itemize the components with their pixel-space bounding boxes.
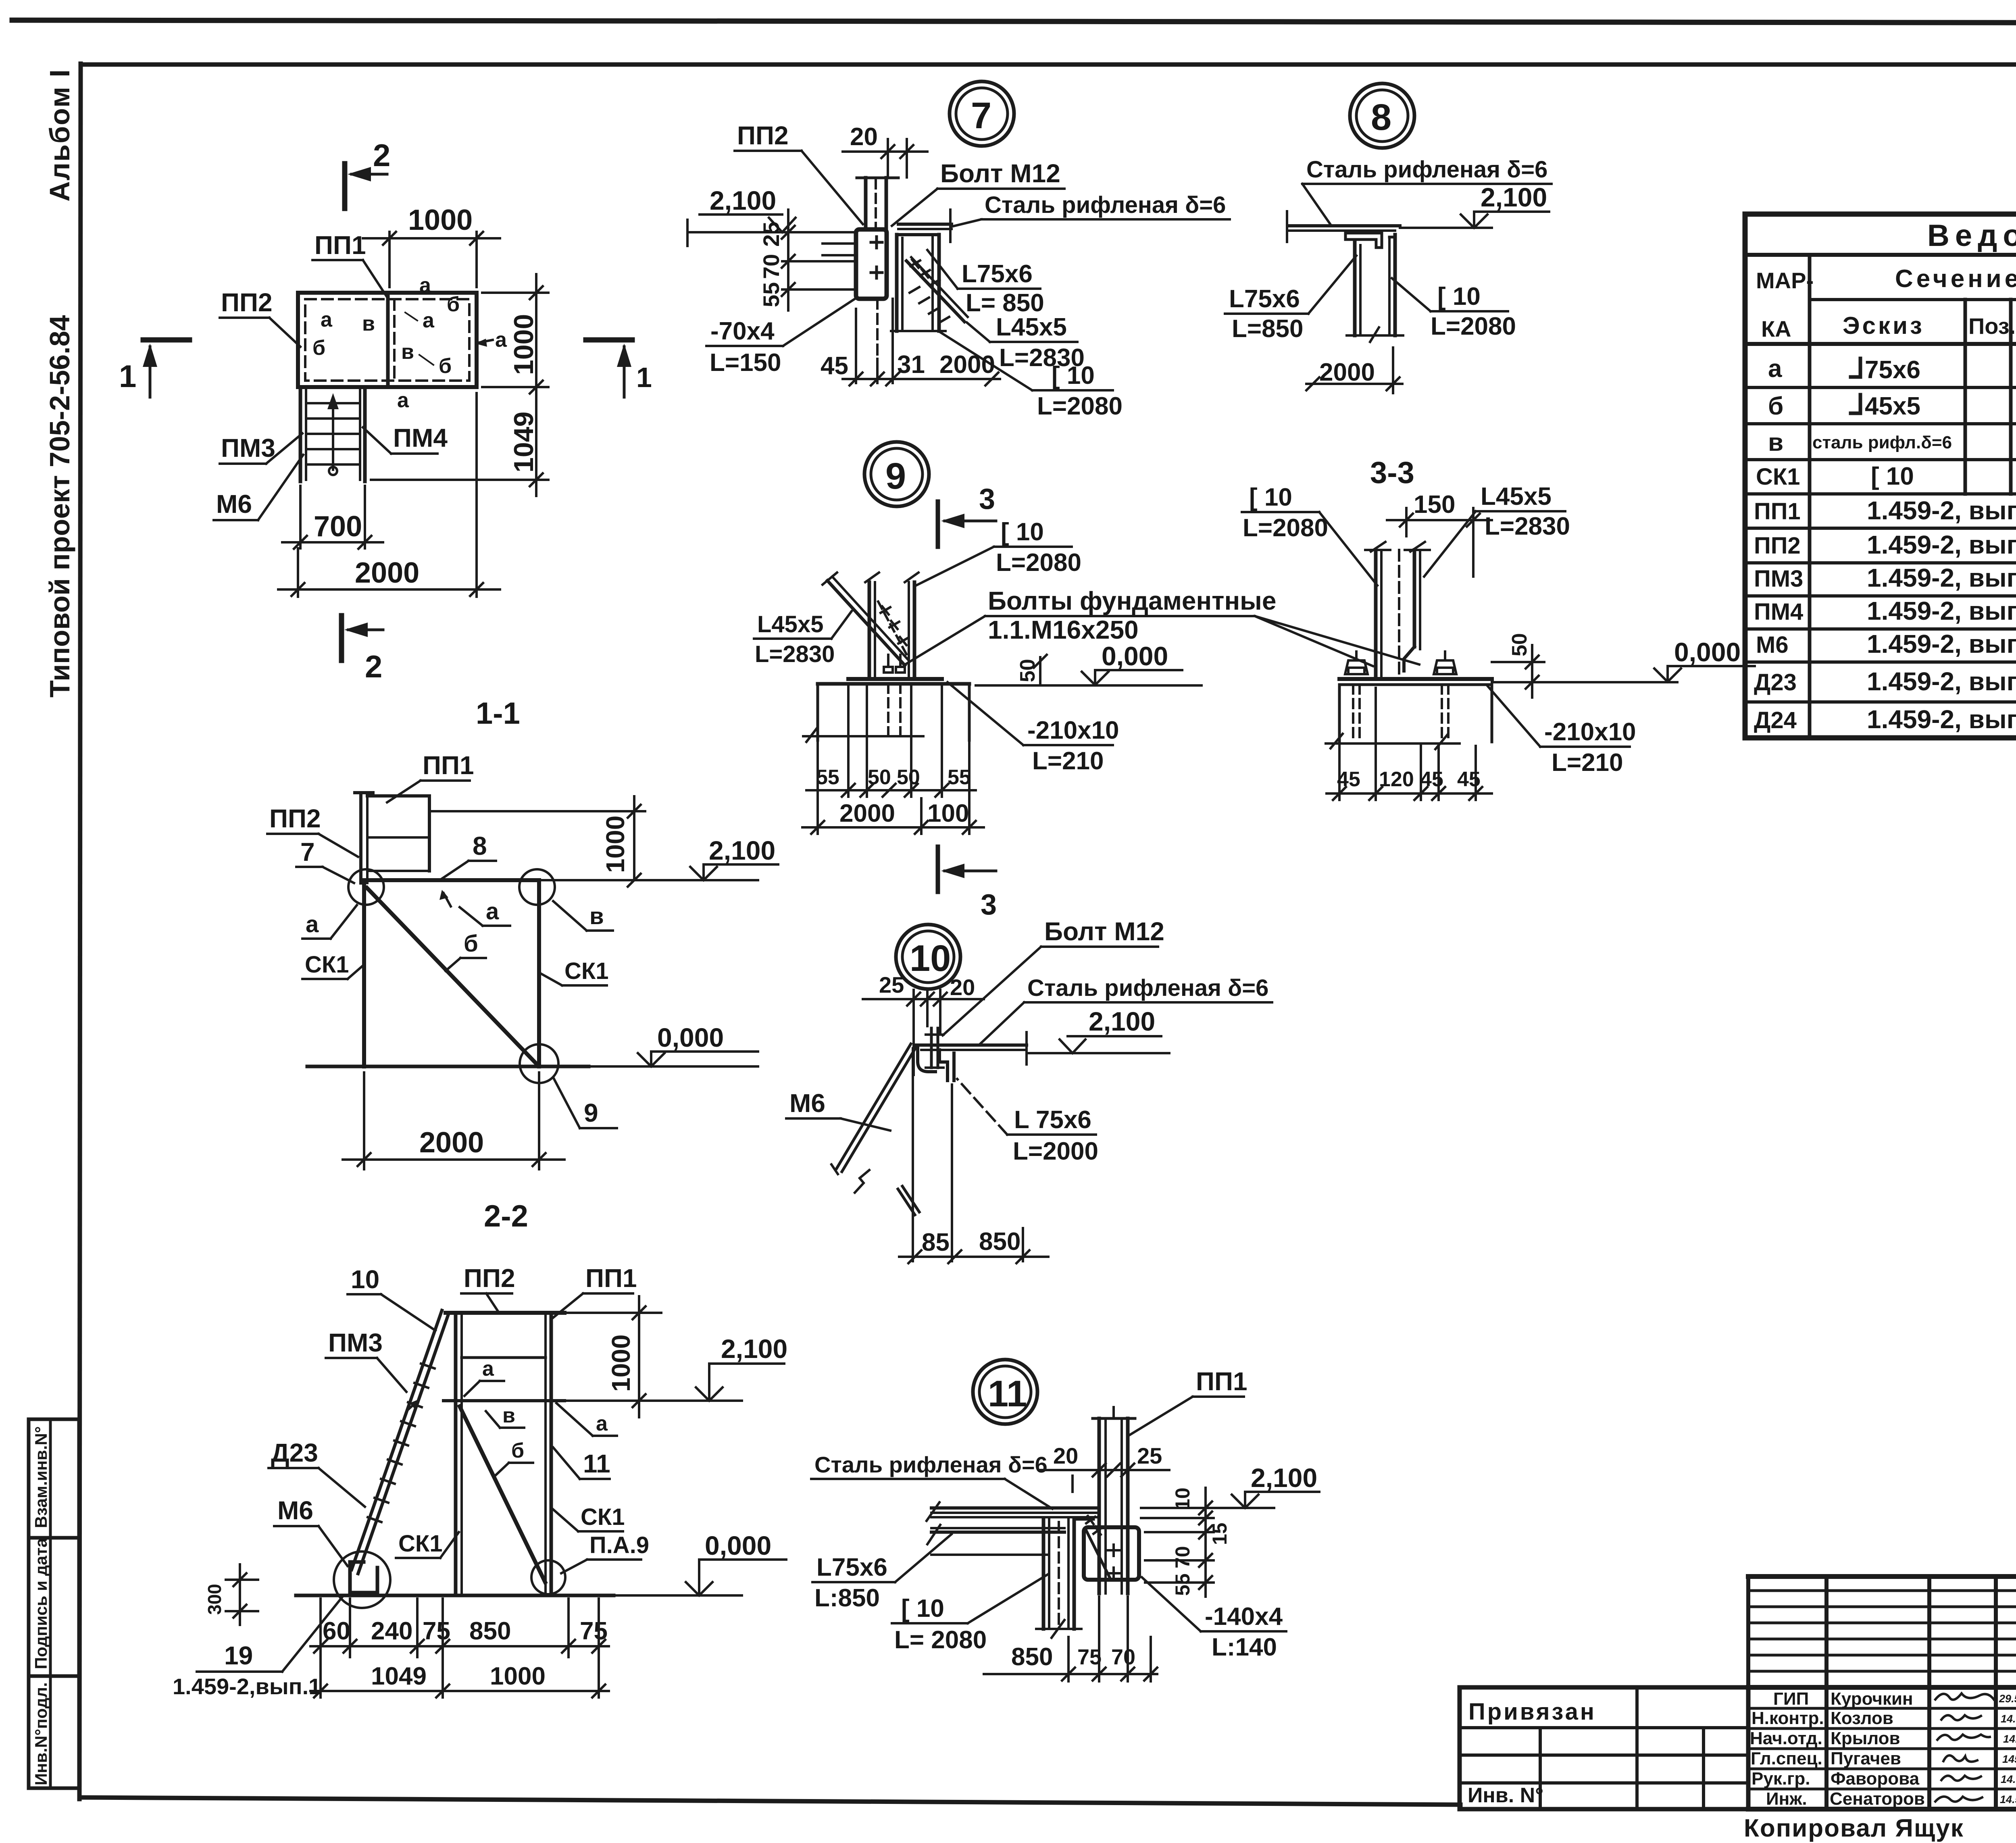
detail 11 post PP1 <box>1093 1417 1135 1420</box>
signature dates <box>1999 1693 2016 1806</box>
svg-text:Сечение: Сечение <box>1895 265 2016 293</box>
svg-text:L= 850: L= 850 <box>966 289 1044 317</box>
detail 9 bottom dims 2000 100 <box>816 742 819 834</box>
section 3-3 anchor bolt right <box>1437 668 1453 674</box>
svg-text:2000: 2000 <box>419 1127 484 1159</box>
svg-text:70: 70 <box>758 254 784 279</box>
detail 8 top angle piece <box>1345 233 1382 248</box>
svg-text:55: 55 <box>1171 1573 1194 1596</box>
svg-text:1049: 1049 <box>508 412 539 473</box>
detail 9 anchor bolt heads <box>884 667 893 673</box>
detail 11 callout circle <box>973 1360 1037 1424</box>
section 2-2 small arrow g <box>407 1402 416 1410</box>
section 1-1 right post <box>537 880 541 1066</box>
svg-text:а: а <box>419 274 431 297</box>
section mark 2 bottom <box>339 616 344 660</box>
section 1-1 node circles <box>348 869 384 905</box>
svg-text:55: 55 <box>948 766 971 789</box>
plan small leader arrows <box>478 340 493 343</box>
svg-text:45x5: 45x5 <box>1865 392 1920 420</box>
svg-text:70: 70 <box>1111 1645 1135 1669</box>
section mark 1 right <box>586 337 632 343</box>
svg-text:L=210: L=210 <box>1552 749 1623 777</box>
detail 9 callout circle <box>864 442 929 506</box>
detail 9 dim 50 <box>1039 657 1041 685</box>
svg-text:10: 10 <box>1171 1487 1194 1510</box>
detail 8 floor steel <box>1289 224 1400 227</box>
plan view inner dashed rect <box>305 299 469 381</box>
svg-text:2,100: 2,100 <box>709 835 775 865</box>
svg-text:2-2: 2-2 <box>484 1199 528 1233</box>
section 3-3 base plate <box>1339 677 1492 681</box>
svg-text:L=2830: L=2830 <box>1485 512 1570 540</box>
svg-text:0,000: 0,000 <box>705 1531 771 1560</box>
svg-text:ПМ4: ПМ4 <box>393 423 448 452</box>
detail 9 base plate <box>848 677 942 681</box>
svg-text:11: 11 <box>988 1373 1027 1414</box>
svg-text:б: б <box>447 293 460 316</box>
plan dim 700 <box>299 486 302 548</box>
detail 9 bottom dims 55 50 50 55 <box>847 726 850 797</box>
svg-text:45: 45 <box>1420 768 1443 791</box>
svg-text:L=850: L=850 <box>1232 315 1304 343</box>
svg-text:1.459-2, вып. 2, лист 75: 1.459-2, вып. 2, лист 75 <box>1867 496 2016 525</box>
detail 8 callout circle <box>1350 83 1414 148</box>
section 2-2 top chord <box>446 1311 564 1315</box>
svg-text:Д24: Д24 <box>1754 707 1797 733</box>
signature names <box>1830 1689 1925 1809</box>
section 3-3 anchor bolts dashed <box>1352 685 1354 738</box>
section 2-2 lower dim extension verticals <box>321 1599 599 1697</box>
svg-text:Сенаторов: Сенаторов <box>1830 1789 1925 1809</box>
svg-text:Ведомость элементов: Ведомость элементов <box>1927 219 2016 253</box>
svg-text:L45x5: L45x5 <box>1481 483 1552 510</box>
signature row lines <box>1748 1708 2016 1789</box>
section 1-1 dim 1000 right <box>429 810 645 812</box>
title block top edge <box>1748 1574 2016 1579</box>
svg-text:L=150: L=150 <box>710 349 781 377</box>
svg-text:Альбом I: Альбом I <box>44 69 75 202</box>
svg-text:ПП1: ПП1 <box>423 751 474 780</box>
table header bottom line <box>1745 342 2016 346</box>
svg-text:Сталь рифленая δ=6: Сталь рифленая δ=6 <box>1306 156 1547 183</box>
svg-text:Козлов: Козлов <box>1831 1708 1893 1728</box>
detail 7 plate -70x4 <box>856 229 887 299</box>
svg-text:700: 700 <box>314 510 362 543</box>
detail 8 break mark <box>1370 327 1379 342</box>
detail 10 inclined strut M6 <box>837 1044 911 1168</box>
svg-text:240: 240 <box>371 1617 412 1645</box>
svg-text:850: 850 <box>1011 1643 1053 1671</box>
svg-text:1.459-2, вып. 1, лист 81: 1.459-2, вып. 1, лист 81 <box>1867 667 2016 696</box>
svg-text:а: а <box>397 389 409 412</box>
section 2-2 small letters <box>482 1357 608 1462</box>
svg-text:Инв.N°подл.: Инв.N°подл. <box>31 1682 50 1785</box>
svg-text:М6: М6 <box>789 1089 825 1118</box>
svg-text:1: 1 <box>119 358 136 394</box>
detail 9 foundation inner verticals <box>847 685 850 726</box>
svg-text:в: в <box>362 312 375 335</box>
svg-text:Эскиз: Эскиз <box>1843 312 1924 339</box>
svg-text:1.459-2, вып. 2, лист 55: 1.459-2, вып. 2, лист 55 <box>1867 563 2016 592</box>
svg-text:ПП2: ПП2 <box>269 804 321 833</box>
sheet outer top border <box>12 20 2016 23</box>
svg-text:3-3: 3-3 <box>1370 456 1414 490</box>
section 2-2 left post <box>454 1313 458 1593</box>
table header mid line <box>1810 298 2016 301</box>
svg-text:850: 850 <box>469 1617 511 1645</box>
svg-text:45: 45 <box>1457 768 1481 791</box>
section 2-2 rail mid line <box>462 1356 546 1359</box>
detail 11 vertical dims 10 15 70 55 <box>1141 1507 1214 1509</box>
svg-text:[ 10: [ 10 <box>1437 283 1481 310</box>
svg-text:[ 10: [ 10 <box>1001 518 1044 546</box>
svg-text:а: а <box>486 898 499 925</box>
detail 9 diagonal L45x5 <box>827 581 905 665</box>
table column lines <box>1810 255 2016 738</box>
svg-text:7: 7 <box>300 837 315 866</box>
stamp divider vertical <box>49 1419 52 1788</box>
detail 10 floor steel <box>916 1043 1027 1047</box>
svg-text:29.5.84: 29.5.84 <box>1999 1693 2016 1705</box>
svg-text:-70x4: -70x4 <box>710 317 775 345</box>
signature squiggles <box>1935 1693 1994 1802</box>
section 3-3 angle L45x5 right <box>1413 550 1416 647</box>
detail 9 column verticals <box>868 582 871 679</box>
svg-text:75: 75 <box>580 1617 608 1645</box>
plan view panel divider <box>386 293 390 387</box>
svg-text:L 75x6: L 75x6 <box>1014 1106 1091 1134</box>
svg-text:Болт М12: Болт М12 <box>940 159 1060 188</box>
section 2-2 lower dim line 1 <box>310 1645 609 1647</box>
svg-text:ГИП: ГИП <box>1773 1689 1809 1709</box>
svg-text:1.459-2, вып. 2, лист 19: 1.459-2, вып. 2, лист 19 <box>1867 629 2016 658</box>
svg-text:1.459-2, вып 2, лист 75: 1.459-2, вып 2, лист 75 <box>1867 530 2016 559</box>
section mark 1 left <box>143 337 190 343</box>
svg-text:50: 50 <box>1508 633 1531 656</box>
section 2-2 ladder rung ticks <box>368 1364 435 1522</box>
svg-text:ПП2: ПП2 <box>1754 533 1801 559</box>
svg-text:2: 2 <box>365 649 382 684</box>
svg-text:L=210: L=210 <box>1032 747 1104 775</box>
stamp box column outline <box>29 1419 79 1788</box>
svg-text:Взам.инв.N°: Взам.инв.N° <box>31 1426 50 1528</box>
section 2-2 letter underlines and leaders <box>480 1380 504 1382</box>
svg-text:СК1: СК1 <box>305 952 349 978</box>
detail 7 channel upright <box>895 235 899 331</box>
svg-text:300: 300 <box>204 1584 225 1615</box>
svg-text:45: 45 <box>821 352 848 380</box>
detail 11 beam L75x6 <box>931 1527 1064 1529</box>
svg-text:Типовой проект 705-2-56.84: Типовой проект 705-2-56.84 <box>44 315 75 698</box>
section 2-2 ground line <box>296 1594 614 1597</box>
svg-text:1000: 1000 <box>606 1335 635 1392</box>
svg-text:14.5.84: 14.5.84 <box>2001 1713 2016 1725</box>
svg-text:Инв. N°: Инв. N° <box>1468 1784 1543 1807</box>
svg-text:75: 75 <box>423 1617 450 1645</box>
svg-text:L75x6: L75x6 <box>1229 285 1300 313</box>
section 2-2 elevation 0.000 <box>614 1594 742 1597</box>
svg-text:75x6: 75x6 <box>1865 356 1920 384</box>
svg-text:1-1: 1-1 <box>476 696 520 731</box>
detail 10 strut break mark <box>855 1170 869 1193</box>
svg-text:L=2080: L=2080 <box>1431 312 1516 340</box>
svg-text:L:850: L:850 <box>814 1584 880 1612</box>
svg-text:70: 70 <box>1171 1546 1194 1568</box>
svg-text:45: 45 <box>1337 768 1360 791</box>
svg-text:20: 20 <box>950 975 975 1000</box>
section mark 2 top <box>342 164 348 208</box>
section 1-1 diagonal brace <box>367 888 537 1064</box>
svg-text:L=2830: L=2830 <box>755 641 835 667</box>
svg-text:2,100: 2,100 <box>1481 182 1547 212</box>
section 2-2 walkway level line <box>444 1399 564 1402</box>
svg-text:[ 10: [ 10 <box>901 1595 944 1622</box>
svg-text:Д23: Д23 <box>1754 669 1797 696</box>
section 1-1 ground line <box>307 1065 589 1068</box>
svg-text:55: 55 <box>816 766 839 789</box>
detail 7 handrail post <box>857 177 898 179</box>
title block mid line <box>1748 1685 2016 1690</box>
plan dim 1049 right vertical <box>371 479 548 481</box>
svg-text:Болты фундаментные: Болты фундаментные <box>988 586 1276 615</box>
detail 9 section mark 3 top <box>936 502 940 547</box>
svg-text:L=2080: L=2080 <box>1037 392 1123 420</box>
svg-text:Сталь рифленая δ=6: Сталь рифленая δ=6 <box>814 1452 1048 1477</box>
element list table outer frame <box>1745 214 2016 738</box>
section 2-2 ladder stringer <box>352 1310 442 1570</box>
svg-text:2,100: 2,100 <box>1089 1006 1155 1036</box>
section 1-1 left post <box>362 880 366 1066</box>
svg-text:-140x4: -140x4 <box>1205 1603 1283 1631</box>
detail 11 weld x marks <box>1086 1516 1102 1535</box>
svg-text:10: 10 <box>910 938 951 979</box>
svg-text:а: а <box>482 1357 494 1381</box>
svg-text:8: 8 <box>1371 97 1391 138</box>
table title row line <box>1745 253 2016 257</box>
stamp cell 1 bottom line <box>29 1536 79 1540</box>
svg-text:11: 11 <box>583 1449 610 1478</box>
title block thin upper rows <box>1748 1591 2016 1671</box>
section 2-2 elevation 2.100 <box>564 1399 742 1402</box>
svg-text:СК1: СК1 <box>581 1504 625 1530</box>
svg-text:L75x6: L75x6 <box>816 1554 887 1581</box>
svg-text:ПП2: ПП2 <box>221 288 273 317</box>
svg-text:а: а <box>423 309 435 332</box>
detail 9 inner dashed diagonal with weld marks <box>878 602 908 657</box>
detail 7 vertical dims 25 70 55 <box>782 260 856 262</box>
svg-text:в: в <box>401 340 414 364</box>
svg-text:L45x5: L45x5 <box>996 313 1067 341</box>
svg-text:15: 15 <box>1208 1522 1231 1545</box>
svg-text:2: 2 <box>373 137 390 173</box>
svg-text:СК1: СК1 <box>1756 464 1800 490</box>
svg-text:б: б <box>439 354 452 378</box>
svg-text:850: 850 <box>979 1228 1020 1256</box>
svg-text:1000: 1000 <box>408 204 473 236</box>
privyazan row lines <box>1460 1726 1748 1729</box>
svg-text:Курочкин: Курочкин <box>1831 1689 1913 1709</box>
section 3-3 channel C10 left <box>1374 550 1378 679</box>
svg-text:Сталь рифленая δ=6: Сталь рифленая δ=6 <box>1027 975 1268 1001</box>
svg-text:2000: 2000 <box>839 800 895 827</box>
section 3-3 bottom dims 45 120 45 45 <box>1339 688 1476 800</box>
signature roles <box>1750 1689 1824 1809</box>
svg-text:МАР-: МАР- <box>1756 268 1814 293</box>
section 3-3 center dashed line <box>1398 550 1400 677</box>
svg-text:25: 25 <box>879 972 904 998</box>
detail 11 channel C10 <box>1042 1519 1045 1629</box>
plan view platform outer rect <box>298 293 477 387</box>
svg-text:[ 10: [ 10 <box>1052 362 1095 389</box>
svg-text:120: 120 <box>1379 768 1414 791</box>
svg-text:а: а <box>495 328 507 352</box>
title block verticals <box>1748 1576 2016 1809</box>
table row lines <box>1745 387 2016 702</box>
detail 11 floor steel <box>931 1506 1099 1510</box>
svg-text:1: 1 <box>636 362 652 393</box>
svg-text:19: 19 <box>224 1641 253 1670</box>
svg-text:-210x10: -210x10 <box>1544 718 1636 746</box>
svg-text:100: 100 <box>927 800 969 827</box>
svg-text:М6: М6 <box>277 1496 313 1525</box>
detail 10 bolt <box>930 1028 933 1068</box>
svg-text:2,100: 2,100 <box>710 185 776 215</box>
svg-text:М6: М6 <box>1756 632 1789 658</box>
detail 7 floor left of post <box>823 231 856 233</box>
svg-text:0,000: 0,000 <box>1674 637 1741 667</box>
detail 10 callout circle <box>896 925 960 989</box>
section 2-2 lower dim line 2 <box>310 1690 609 1692</box>
svg-text:7: 7 <box>971 95 991 136</box>
svg-text:[ 10: [ 10 <box>1249 483 1292 511</box>
detail 10 hook angle under floor left <box>918 1047 935 1072</box>
svg-text:Инж.: Инж. <box>1766 1789 1807 1809</box>
svg-text:L=2080: L=2080 <box>996 549 1081 577</box>
svg-text:2000: 2000 <box>355 557 419 589</box>
section 1-1 elevation 0.000 <box>589 1065 758 1068</box>
svg-text:1.459-2, вып. 1, лист 81: 1.459-2, вып. 1, лист 81 <box>1867 705 2016 734</box>
svg-text:3: 3 <box>981 889 997 921</box>
svg-text:1.459-2,вып.1: 1.459-2,вып.1 <box>173 1674 321 1699</box>
svg-text:Пугачев: Пугачев <box>1831 1749 1901 1768</box>
section 2-2 diagonal brace <box>460 1406 545 1582</box>
svg-text:ПП1: ПП1 <box>585 1264 637 1293</box>
svg-text:в: в <box>1768 429 1783 456</box>
detail 7 diagonal L45x5 <box>906 261 964 322</box>
detail 11 bracket -140x4 <box>1084 1527 1139 1580</box>
stamp cell 2 bottom line <box>29 1674 79 1678</box>
svg-text:14584: 14584 <box>2002 1753 2016 1765</box>
svg-text:31: 31 <box>897 351 925 379</box>
detail 9 section mark 3 bottom <box>936 847 940 892</box>
section 1-1 elevation 2.100 <box>539 879 758 881</box>
svg-text:25: 25 <box>758 222 784 247</box>
svg-text:б: б <box>1768 392 1783 420</box>
svg-text:ПМ3: ПМ3 <box>1754 566 1803 592</box>
svg-text:50: 50 <box>1016 659 1039 682</box>
svg-text:б: б <box>464 931 478 957</box>
svg-text:Поз.: Поз. <box>1968 313 2016 339</box>
svg-text:L=2000: L=2000 <box>1013 1137 1098 1165</box>
svg-text:Крылов: Крылов <box>1831 1728 1900 1748</box>
svg-text:Н.контр.: Н.контр. <box>1752 1708 1824 1728</box>
inner frame top border <box>81 62 2016 67</box>
section 3-3 dim 50 right <box>1492 661 1544 663</box>
svg-text:2,100: 2,100 <box>721 1334 787 1364</box>
svg-text:ПМ4: ПМ4 <box>1754 599 1803 625</box>
svg-text:9: 9 <box>584 1098 598 1127</box>
svg-text:в: в <box>589 903 604 929</box>
svg-text:1.1.М16x250: 1.1.М16x250 <box>988 615 1139 644</box>
svg-text:50: 50 <box>868 766 891 789</box>
plan dim 1000 right vertical <box>482 292 548 294</box>
svg-text:сталь рифл.δ=6: сталь рифл.δ=6 <box>1812 433 1952 452</box>
svg-text:Копировал Ящук: Копировал Ящук <box>1744 1814 1964 1842</box>
detail 10 strut lower stub <box>898 1189 915 1215</box>
svg-text:а: а <box>596 1412 608 1435</box>
svg-text:14.5.84: 14.5.84 <box>2001 1773 2016 1785</box>
svg-text:Привязан: Привязан <box>1468 1699 1596 1725</box>
section 2-2 dim 1000 right <box>564 1312 661 1314</box>
svg-text:10: 10 <box>351 1265 379 1294</box>
section 1-1 small arrow g <box>444 893 451 906</box>
svg-text:Подпись и дата: Подпись и дата <box>31 1538 50 1669</box>
svg-text:[ 10: [ 10 <box>1871 462 1914 490</box>
privyazan column lines <box>1539 1728 1542 1808</box>
plan ladder rungs <box>306 403 360 464</box>
svg-text:М6: М6 <box>216 489 252 519</box>
svg-text:1000: 1000 <box>490 1662 546 1690</box>
svg-text:L75x6: L75x6 <box>962 260 1033 288</box>
svg-text:L=2080: L=2080 <box>1243 514 1328 542</box>
svg-text:14.5.84: 14.5.84 <box>2000 1793 2016 1806</box>
svg-text:8: 8 <box>473 831 487 860</box>
svg-text:Рук.гр.: Рук.гр. <box>1752 1769 1810 1789</box>
svg-text:СК1: СК1 <box>564 958 609 984</box>
svg-text:1.459-2, вып. 2, лист 55: 1.459-2, вып. 2, лист 55 <box>1867 596 2016 625</box>
svg-text:б: б <box>312 336 325 360</box>
svg-text:3: 3 <box>979 483 995 515</box>
section 1-1 dim 2000 bottom <box>363 1072 365 1169</box>
section 2-2 right node circle <box>531 1560 565 1594</box>
svg-text:Фаворова: Фаворова <box>1831 1769 1920 1789</box>
svg-text:0,000: 0,000 <box>1102 641 1168 671</box>
svg-text:Сталь рифленая δ=6: Сталь рифленая δ=6 <box>985 192 1226 218</box>
detail 10 extension vertical from apex <box>912 1048 914 1261</box>
svg-text:ПМ3: ПМ3 <box>328 1328 383 1357</box>
section 2-2 foot circle <box>334 1551 390 1608</box>
svg-text:9: 9 <box>885 456 906 497</box>
svg-text:1049: 1049 <box>371 1662 427 1690</box>
svg-text:Д23: Д23 <box>271 1438 318 1467</box>
svg-text:1000: 1000 <box>508 314 539 375</box>
title block bottom edge <box>1748 1807 2016 1812</box>
svg-text:-210x10: -210x10 <box>1027 716 1119 744</box>
section 1-1 post PP1 top detail <box>355 791 373 794</box>
plan ladder direction arrow <box>332 399 334 470</box>
svg-text:в: в <box>502 1404 515 1427</box>
svg-text:КА: КА <box>1761 316 1791 342</box>
detail 7 floor steel right <box>898 223 952 226</box>
svg-text:2000: 2000 <box>939 351 995 379</box>
svg-text:Нач.отд.: Нач.отд. <box>1750 1728 1822 1748</box>
svg-text:б: б <box>511 1439 524 1462</box>
svg-text:ПП1: ПП1 <box>1754 498 1801 525</box>
svg-text:25: 25 <box>1137 1443 1162 1468</box>
plan dim 2000 <box>297 548 299 597</box>
svg-text:ПП2: ПП2 <box>464 1264 515 1293</box>
